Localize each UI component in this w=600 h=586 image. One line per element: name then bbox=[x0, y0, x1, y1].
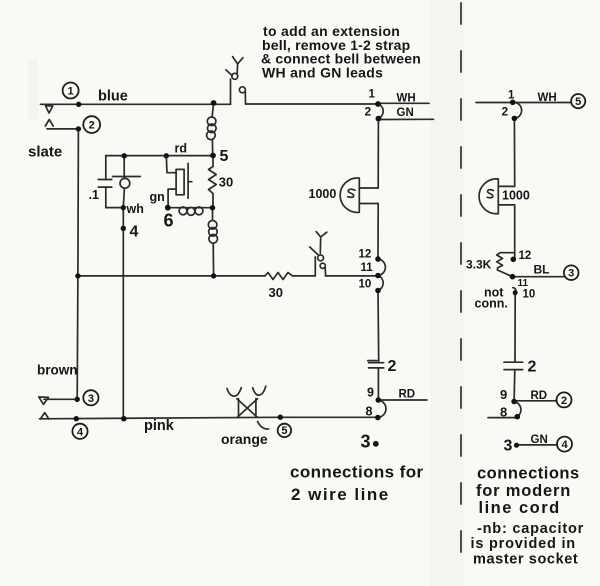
svg-text:3: 3 bbox=[88, 393, 94, 405]
node 3 right dot bbox=[514, 443, 519, 448]
svg-text:2 wire line: 2 wire line bbox=[291, 485, 390, 504]
node 6 gn dot bbox=[165, 205, 171, 211]
hook switch SW1 lever bbox=[226, 70, 232, 76]
svg-text:rd: rd bbox=[175, 142, 188, 156]
inductor L1 loops bbox=[179, 207, 187, 215]
svg-text:1000: 1000 bbox=[309, 187, 337, 201]
svg-text:RD: RD bbox=[399, 389, 416, 401]
transmitter lower lead bbox=[123, 188, 124, 207]
bell B1 top stub bbox=[359, 187, 378, 189]
svg-text:11: 11 bbox=[518, 278, 529, 289]
svg-text:3: 3 bbox=[568, 268, 574, 280]
wire left vertical bus bbox=[77, 129, 78, 399]
svg-text:9: 9 bbox=[367, 386, 374, 400]
node transmitter-rd dot bbox=[122, 153, 127, 158]
svg-text:2: 2 bbox=[365, 105, 372, 119]
resistor R1 30 vertical bbox=[209, 156, 217, 208]
transmitter orange left stub bbox=[238, 399, 240, 418]
svg-text:BL: BL bbox=[534, 263, 550, 277]
svg-text:connections for: connections for bbox=[290, 463, 424, 482]
wire blue top bbox=[41, 103, 231, 105]
capacitor C1 top lead bbox=[105, 156, 107, 180]
wire terminal2 down to bell bbox=[377, 118, 379, 188]
terminal circle 4 bbox=[72, 424, 87, 439]
wire node4 vertical bbox=[122, 208, 124, 419]
node terminal2 dot bbox=[76, 126, 81, 131]
svg-text:10: 10 bbox=[359, 279, 372, 291]
wire RD lead bbox=[380, 399, 427, 401]
transmitter orange X bbox=[237, 399, 258, 418]
svg-text:WH: WH bbox=[397, 93, 416, 105]
svg-text:GN: GN bbox=[531, 434, 548, 446]
wire blue right segment to terminal 1 bbox=[246, 103, 379, 105]
svg-text:4: 4 bbox=[561, 439, 568, 451]
svg-text:1000: 1000 bbox=[502, 189, 530, 203]
transmitter cross line bbox=[113, 176, 141, 178]
capacitor C3 plates bbox=[504, 362, 523, 369]
wire brown terminal 3 bbox=[44, 398, 77, 400]
wire mid horizontal bbox=[78, 275, 265, 277]
wire node10 down to capacitor bbox=[377, 291, 380, 362]
wire bell to node 12 right bbox=[514, 205, 516, 259]
svg-text:for modern: for modern bbox=[476, 482, 571, 500]
svg-text:RD: RD bbox=[531, 390, 548, 402]
wire GN lead bbox=[378, 118, 433, 120]
strap arc terminals 1-2 bbox=[378, 104, 383, 118]
transmitter orange right horn bbox=[253, 386, 266, 395]
svg-text:connections: connections bbox=[477, 465, 580, 483]
transmitter circle bbox=[120, 178, 130, 188]
node terminal 2 top dot bbox=[376, 116, 382, 122]
node 12 right dot bbox=[511, 257, 517, 263]
induction coil tap arc 11-10 bbox=[378, 276, 383, 291]
wire pink terminal 4 bbox=[40, 417, 378, 419]
svg-text:5: 5 bbox=[575, 96, 581, 108]
node wh dot bbox=[121, 205, 126, 210]
svg-text:line cord: line cord bbox=[479, 499, 561, 517]
terminal circle 2 right bbox=[557, 392, 572, 407]
svg-text:1: 1 bbox=[508, 90, 515, 102]
hook switch SW1 plunger Y bbox=[233, 57, 243, 73]
node terminal3 dot bbox=[75, 397, 80, 402]
bell B1 clapper S bbox=[348, 189, 355, 197]
wire node 8 stub right bbox=[488, 417, 517, 419]
hook switch SW1 left stub bbox=[230, 79, 232, 104]
inductor L2 loops bbox=[207, 117, 216, 126]
bell B1 bottom stub bbox=[359, 203, 378, 205]
svg-text:gn: gn bbox=[150, 190, 165, 204]
terminal circle 3 right bbox=[564, 265, 579, 280]
svg-text:slate: slate bbox=[28, 144, 62, 161]
svg-text:3: 3 bbox=[504, 438, 513, 455]
terminal circle 2 bbox=[83, 116, 100, 133]
hook switch SW2 plunger Y bbox=[316, 232, 327, 254]
node 8 dot bbox=[375, 415, 381, 421]
node 2 right dot bbox=[512, 116, 518, 122]
capacitor C2 bottom lead bbox=[377, 368, 379, 400]
svg-text:orange: orange bbox=[221, 431, 268, 447]
svg-text:2: 2 bbox=[561, 395, 567, 407]
bell B2 top stub bbox=[498, 185, 514, 187]
inductor L1 horizontal leads bbox=[168, 207, 213, 209]
node 11 dot bbox=[375, 273, 381, 279]
wire slate bbox=[47, 128, 78, 130]
node terminal4 dot bbox=[74, 416, 79, 421]
resistor R3 3.3K tee bbox=[500, 252, 515, 254]
wire rd horizontal bbox=[106, 155, 213, 157]
terminal circle 5 bbox=[278, 424, 291, 437]
bell B2 bottom stub bbox=[498, 204, 514, 206]
arrow line-in top (down triangle) bbox=[46, 106, 53, 113]
svg-text:2: 2 bbox=[528, 359, 537, 376]
hook switch SW1 right contact hook bbox=[239, 87, 245, 93]
bell B1 1000 body bbox=[340, 178, 359, 212]
strap arc 1-2 right bbox=[513, 102, 522, 118]
arrow line-in brown (down triangle) bbox=[39, 397, 49, 404]
wire WH lead bbox=[380, 102, 429, 104]
inductor L3 loops bbox=[208, 221, 217, 230]
node 10 right dot bbox=[513, 290, 518, 295]
svg-text:12: 12 bbox=[519, 250, 532, 262]
svg-text:30: 30 bbox=[219, 175, 233, 190]
node mid-left dot bbox=[75, 273, 80, 278]
node 9 right dot bbox=[511, 399, 517, 405]
receiver lower stub bbox=[168, 189, 176, 208]
svg-text:GN: GN bbox=[397, 107, 414, 119]
terminal circle 4 right bbox=[557, 437, 572, 452]
node terminal 1 top dot bbox=[375, 101, 381, 107]
svg-text:9: 9 bbox=[500, 387, 507, 402]
svg-text:5: 5 bbox=[281, 425, 287, 437]
hook switch SW2 right contact hook bbox=[320, 263, 325, 268]
wire mid to switch bbox=[293, 275, 316, 277]
capacitor C3 leads bbox=[513, 359, 516, 401]
receiver tick bbox=[188, 181, 192, 183]
node coil top dot bbox=[211, 100, 217, 106]
svg-text:5: 5 bbox=[220, 148, 229, 165]
terminal circle 1 bbox=[63, 83, 79, 99]
node 10 dot bbox=[375, 288, 381, 294]
svg-text:30: 30 bbox=[269, 285, 283, 300]
bell B2 clapper S bbox=[487, 190, 493, 198]
svg-text:1: 1 bbox=[68, 86, 74, 98]
separator dashed line bbox=[460, 3, 462, 570]
svg-text:WH: WH bbox=[538, 92, 557, 104]
svg-text:4: 4 bbox=[77, 426, 84, 438]
node 11 right dot bbox=[510, 274, 516, 280]
svg-text:2: 2 bbox=[502, 105, 509, 119]
svg-text:.1: .1 bbox=[89, 188, 99, 202]
terminal circle 5 right bbox=[571, 94, 585, 108]
svg-text:12: 12 bbox=[359, 249, 372, 261]
node pink junction dot bbox=[121, 416, 127, 422]
svg-text:10: 10 bbox=[523, 289, 536, 301]
node 10 hook right bbox=[513, 288, 516, 293]
receiver upper stub bbox=[166, 156, 176, 173]
capacitor C2 plates bbox=[368, 361, 384, 368]
inductor L2 top coil leads bbox=[212, 103, 213, 156]
orange label leader bbox=[258, 422, 269, 430]
svg-text:2: 2 bbox=[388, 358, 397, 375]
capacitor C1 bottom lead bbox=[106, 187, 124, 208]
transmitter branch upper lead bbox=[123, 156, 125, 179]
wire switch to node 11 bbox=[326, 275, 379, 277]
resistor R3 3.3K zigzag bbox=[497, 253, 503, 270]
svg-text:pink: pink bbox=[144, 418, 175, 434]
svg-text:conn.: conn. bbox=[475, 297, 508, 311]
svg-text:brown: brown bbox=[37, 363, 78, 378]
svg-text:2: 2 bbox=[89, 120, 95, 132]
wire RD lead right bbox=[516, 400, 557, 402]
node resistor-coil dot bbox=[210, 205, 215, 210]
inductor L3 lower coil leads bbox=[213, 208, 214, 276]
receiver diaphragm bar bbox=[187, 163, 189, 198]
node receiver-rd dot bbox=[164, 153, 169, 158]
node 4 dot bbox=[121, 226, 126, 231]
node 5 dot bbox=[210, 153, 216, 159]
svg-text:WH and GN leads: WH and GN leads bbox=[262, 64, 383, 80]
svg-text:6: 6 bbox=[164, 211, 174, 231]
svg-text:-nb: capacitor: -nb: capacitor bbox=[477, 521, 584, 537]
wire WH right diagram bbox=[476, 102, 571, 104]
svg-text:11: 11 bbox=[361, 262, 374, 274]
hook switch SW2 lever bbox=[310, 247, 318, 255]
svg-text:4: 4 bbox=[130, 224, 139, 241]
svg-text:8: 8 bbox=[500, 405, 507, 420]
faint scan shading bbox=[430, 0, 464, 586]
svg-text:3.3K: 3.3K bbox=[466, 258, 492, 272]
node mid-coil dot bbox=[211, 273, 216, 278]
arrow line-in slate (up triangle) bbox=[45, 120, 53, 127]
node 1 right dot bbox=[510, 100, 516, 106]
dot of label 3. bbox=[373, 441, 379, 447]
svg-text:8: 8 bbox=[366, 405, 373, 419]
node 8 right dot bbox=[515, 414, 521, 420]
strap arc 9-8 right bbox=[514, 402, 521, 417]
resistor R2 30 horizontal bbox=[265, 273, 293, 280]
transmitter orange right stub bbox=[255, 399, 257, 418]
hook switch SW2 pivot bbox=[318, 255, 324, 261]
hook switch SW1 pivot circle bbox=[232, 73, 238, 79]
terminal circle 3 bbox=[83, 390, 98, 405]
wire GN lead right bbox=[519, 444, 558, 446]
strap arc 9-8 bbox=[378, 400, 386, 418]
capacitor C1 plates (.1) bbox=[98, 180, 112, 188]
transmitter orange left horn bbox=[227, 388, 241, 397]
bell B2 1000 body bbox=[479, 179, 498, 214]
node 9 dot bbox=[376, 397, 382, 403]
node terminal5 dot bbox=[278, 415, 283, 420]
wire terminal2 down to bell right bbox=[513, 118, 515, 186]
svg-text:wh: wh bbox=[126, 202, 144, 216]
svg-text:master socket: master socket bbox=[473, 551, 578, 567]
wire node12 up to bell bbox=[377, 204, 379, 260]
hook switch SW2 left stub bbox=[314, 257, 316, 276]
capacitor C2 top lead bbox=[378, 362, 380, 363]
terminal circles bbox=[63, 83, 586, 452]
wire BL lead bbox=[513, 276, 565, 278]
svg-text:blue: blue bbox=[98, 89, 128, 105]
wire node10 down to capacitor right bbox=[514, 293, 516, 360]
svg-text:1: 1 bbox=[369, 89, 376, 101]
svg-text:3: 3 bbox=[361, 432, 371, 452]
node terminal1 dot bbox=[76, 102, 81, 107]
arrow line-in pink (up triangle) bbox=[41, 413, 49, 419]
induction coil tap arc 12-11 bbox=[378, 259, 385, 276]
svg-text:is provided in: is provided in bbox=[471, 536, 576, 552]
terminal numbers bbox=[68, 86, 582, 452]
node 12 dot bbox=[375, 256, 381, 262]
receiver body box bbox=[176, 169, 184, 194]
resistor R3 to node 11 bbox=[498, 270, 513, 277]
